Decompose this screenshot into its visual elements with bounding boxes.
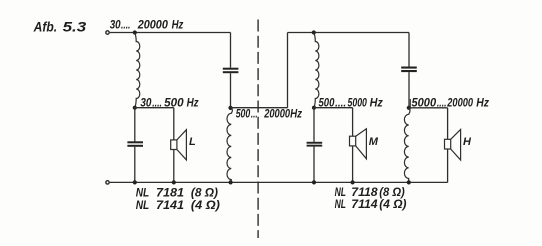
wire node B to speaker L [135,107,174,109]
wire node F to speaker H [409,107,448,109]
wire top right box [288,32,410,34]
svg-text:20000: 20000 [263,107,290,120]
label 500...5000 Hz [319,97,383,110]
svg-text:500: 500 [236,107,251,120]
figure label Afb. 5.3 [33,19,87,35]
terminal input top [106,31,109,34]
svg-text:Afb.: Afb. [33,19,57,35]
inductor L2 (500-20000 shunt) [227,108,232,183]
svg-text:Hz: Hz [187,97,199,110]
wire bottom bus [110,181,448,183]
svg-text:NL: NL [136,187,150,200]
svg-text:(4 Ω): (4 Ω) [191,199,220,212]
divider dashed line between boxes [257,20,259,239]
svg-text:(8 Ω): (8 Ω) [191,187,218,200]
wire speaker L bottom lead [173,150,175,183]
junction dot bottom speaker M [351,180,355,184]
node B junction dot [133,106,137,110]
wire right box riser [287,33,289,108]
capacitor C1 (series highpass) [223,68,239,74]
wire capacitor C4 to node F [408,72,410,108]
junction dot bottom left capacitor [133,180,137,184]
speaker M [350,129,367,159]
wire node E to speaker M [314,107,353,109]
svg-text:NL: NL [136,199,150,212]
svg-text:7181: 7181 [156,187,184,200]
svg-text:(4 Ω): (4 Ω) [379,198,406,211]
label NL 7141 [136,199,220,212]
svg-text:M: M [369,136,379,148]
inductor L3 (midrange series) [314,33,319,108]
node A junction dot [133,30,137,34]
wire top left [110,32,231,34]
label 5000...20000 Hz [412,97,490,110]
capacitor C2 (shunt, left box) [127,141,143,147]
node D junction dot [312,30,316,34]
wire capacitor C1 to node C [230,73,232,108]
wire speaker H top lead [447,108,449,140]
svg-text:7141: 7141 [156,199,184,212]
svg-text:NL: NL [335,198,346,211]
svg-text:Hz: Hz [476,97,489,110]
speaker L [171,130,187,160]
wire capacitor C3 to bottom [313,147,315,183]
svg-text:Hz: Hz [172,18,184,31]
junction dot bottom inductor L4 [407,180,411,184]
speaker H [445,129,461,160]
label 30...500 Hz [140,97,198,110]
capacitor C4 (tweeter series) [401,67,417,73]
label NL 7181 [136,187,218,200]
svg-text:(8 Ω): (8 Ω) [379,186,405,199]
svg-text:20000: 20000 [447,97,474,110]
junction dot bottom capacitor C3 [312,180,316,184]
svg-text:5.3: 5.3 [63,19,87,35]
wire node B to capacitor C2 [134,108,136,142]
svg-text:Hz: Hz [370,97,383,110]
wire top to capacitor C1 [230,33,232,68]
svg-text:L: L [189,136,196,148]
svg-text:...: ... [251,107,258,120]
svg-text:7118: 7118 [351,186,378,199]
terminal input bottom [106,181,109,184]
label NL 7114 [335,198,407,211]
inductor L4 (tweeter shunt) [404,108,410,182]
svg-text:20000: 20000 [137,18,169,31]
wire top to capacitor C4 [408,33,410,67]
node C junction dot [228,106,232,110]
wire speaker H bottom lead [447,149,449,182]
wire capacitor C2 to bottom [134,147,136,183]
svg-text:Hz: Hz [290,107,302,120]
wire link node C to right box [231,107,288,109]
capacitor C3 (midrange shunt) [307,142,323,147]
svg-text:H: H [463,136,472,148]
inductor L1 (30-500Hz lowpass) [135,33,140,108]
wire speaker L top lead [173,108,175,140]
svg-text:....: .... [121,18,130,31]
label 30...20000 Hz [110,18,184,31]
node F junction dot [407,106,411,110]
label NL 7118 [335,186,405,199]
wire speaker M top lead [352,108,354,137]
wire node E to capacitor C3 [313,108,315,142]
svg-text:30: 30 [110,18,121,31]
svg-text:7114: 7114 [351,198,378,211]
label 500...20000Hz [236,107,303,120]
junction dot bottom speaker L [172,180,176,184]
svg-text:NL: NL [335,186,346,199]
label tick 5000-20000 [409,99,411,107]
node E junction dot [312,106,316,110]
wire speaker M bottom lead [352,146,354,183]
junction dot bottom inductor L2 [229,180,233,184]
